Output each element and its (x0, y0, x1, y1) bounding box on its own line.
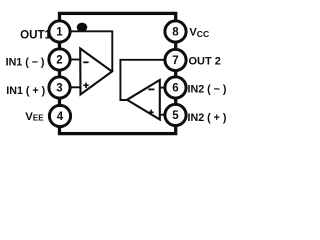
pin 5 circle (165, 104, 186, 125)
wire: op-amp B output to pin 7 (120, 60, 165, 100)
IC package outline U1 (8-pin DIP body) (60, 13, 176, 133)
pin 1 circle (49, 21, 70, 42)
op-amp B minus input marker (148, 88, 154, 90)
pin 4 circle (49, 105, 70, 126)
wire: pin 5 stub to op-amp B non-inverting input (159, 114, 167, 116)
svg-text:OUT 2: OUT 2 (189, 56, 221, 68)
pin 8 circle (165, 21, 186, 42)
svg-text:6: 6 (172, 83, 178, 95)
wire: op-amp A output to pin 1 (vertical at x=111.8, horizontal at y=31.3) (70, 31, 112, 71)
op-amp A minus input marker (83, 61, 88, 63)
svg-text:IN2 ( − ): IN2 ( − ) (188, 84, 227, 96)
pin 6 circle (165, 77, 186, 98)
pin 1 index dot (77, 23, 88, 32)
svg-text:OUT1: OUT1 (20, 29, 51, 42)
op-amp B plus input marker (149, 111, 154, 113)
op-amp A (left triangle, U1a) (80, 49, 112, 95)
svg-text:1: 1 (56, 27, 63, 39)
svg-text:IN1 ( − ): IN1 ( − ) (6, 57, 45, 69)
wire: pin 6 stub to op-amp B inverting input (159, 87, 167, 89)
svg-text:IN1 ( + ): IN1 ( + ) (6, 85, 45, 97)
svg-text:VCC: VCC (189, 26, 209, 38)
wire: pin 3 stub to op-amp A non-inverting input (69, 86, 81, 88)
svg-text:4: 4 (57, 111, 64, 123)
pin 3 circle (49, 77, 70, 98)
svg-text:2: 2 (56, 55, 62, 67)
op-amp A plus input marker (83, 84, 88, 86)
wire: pin 2 stub to op-amp A inverting input (69, 59, 81, 61)
svg-text:5: 5 (172, 110, 179, 122)
pin 2 circle (49, 49, 70, 70)
svg-text:IN2 ( + ): IN2 ( + ) (188, 112, 227, 124)
svg-text:VEE: VEE (25, 111, 44, 123)
pin 7 circle (165, 49, 186, 70)
op-amp B (right triangle, U1b) (127, 80, 160, 120)
svg-text:7: 7 (172, 55, 178, 67)
svg-text:8: 8 (172, 27, 179, 39)
svg-text:3: 3 (56, 83, 62, 95)
